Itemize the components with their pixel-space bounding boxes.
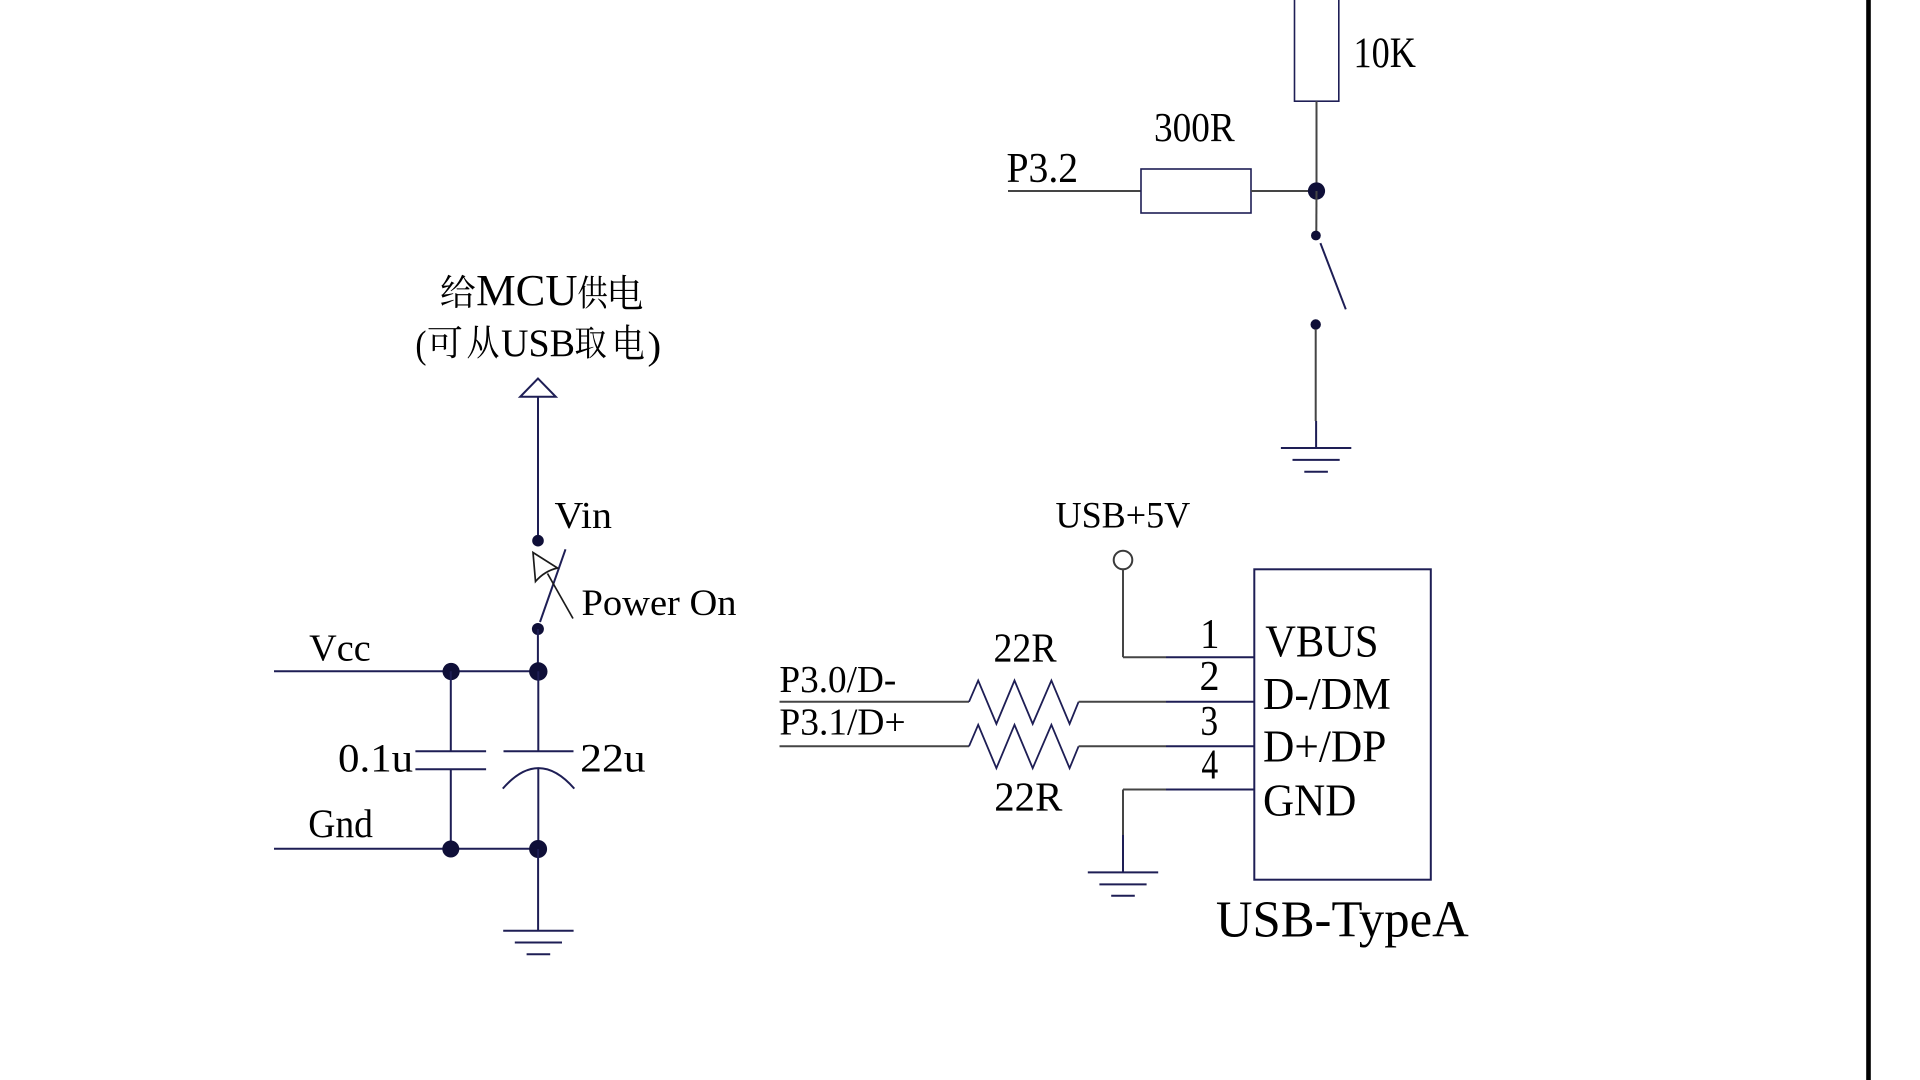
svg-text:2: 2	[1200, 652, 1220, 699]
capacitor 22u top lead	[537, 671, 539, 751]
svg-text:D-/DM: D-/DM	[1263, 669, 1391, 719]
capacitor 0.1u top lead	[450, 671, 452, 751]
svg-text:22R: 22R	[994, 774, 1063, 819]
capacitor 22u top plate	[504, 750, 574, 752]
ground symbol (left section)	[503, 931, 573, 955]
svg-text:USB-TypeA: USB-TypeA	[1216, 891, 1469, 948]
switch S1 bottom terminal dot	[1311, 319, 1321, 329]
terminal circle USB+5V	[1114, 551, 1133, 570]
svg-text:10K: 10K	[1354, 29, 1417, 77]
node Vin terminal dot	[532, 535, 544, 547]
pin 4 stub of USB connector	[1166, 789, 1254, 791]
svg-text:Vin: Vin	[555, 495, 613, 537]
wire 22R (D-) to pin 2	[1079, 701, 1166, 703]
svg-text:Vcc: Vcc	[309, 628, 371, 670]
wire 22R (D+) to pin 3	[1079, 745, 1166, 747]
wire Gnd junction to ground symbol	[537, 849, 539, 931]
net label wire P3.2	[1008, 190, 1141, 192]
hanzi GEI	[441, 275, 475, 308]
junction Gnd / 22u	[529, 840, 547, 858]
hanzi DIAN (line2)	[616, 324, 644, 359]
svg-text:300R: 300R	[1154, 105, 1235, 150]
svg-text:4: 4	[1201, 742, 1218, 788]
switch S1 blade	[1320, 243, 1345, 309]
resistor 300R body	[1141, 169, 1251, 213]
hanzi DIAN (line1)	[611, 275, 642, 310]
pin 2 stub of USB connector	[1166, 701, 1254, 703]
wire net Vcc	[274, 670, 538, 672]
svg-text:1: 1	[1200, 611, 1219, 658]
wire 300R to junction	[1251, 190, 1317, 192]
wire net D- (P3.0)	[780, 701, 970, 703]
wire net D+ (P3.1)	[780, 745, 970, 747]
svg-text:P3.0/D-: P3.0/D-	[779, 658, 896, 700]
junction Gnd / 0.1u	[442, 841, 459, 858]
svg-text:USB+5V: USB+5V	[1056, 494, 1191, 535]
svg-text:): )	[648, 323, 662, 367]
svg-text:P3.2: P3.2	[1007, 145, 1079, 191]
svg-text:Gnd: Gnd	[308, 802, 373, 846]
wire junction to switch top terminal	[1315, 191, 1317, 233]
svg-text:GND: GND	[1263, 775, 1356, 825]
hanzi KE	[428, 326, 461, 358]
svg-text:D+/DP: D+/DP	[1263, 722, 1386, 772]
svg-text:(: (	[415, 323, 426, 366]
pin 1 stub of USB connector	[1166, 656, 1254, 658]
switch S1 top terminal dot	[1311, 231, 1321, 241]
wire 10K bottom to junction	[1316, 101, 1318, 191]
capacitor 0.1u plates	[415, 750, 486, 752]
hanzi CONG	[468, 325, 499, 358]
capacitor 22u bottom lead	[537, 769, 539, 849]
wire net Gnd	[274, 848, 538, 850]
hanzi QU	[576, 326, 606, 358]
svg-text:VBUS: VBUS	[1265, 617, 1378, 666]
sheet border line	[1866, 0, 1871, 1080]
resistor 22R (D+) zigzag body	[969, 725, 1079, 768]
svg-text:USB: USB	[501, 323, 575, 366]
svg-text:MCU: MCU	[476, 265, 577, 315]
wire pin 4 to ground	[1123, 789, 1166, 791]
capacitor 0.1u bottom lead	[450, 769, 452, 848]
wire switch to ground	[1315, 329, 1317, 421]
ground symbol (USB shield)	[1088, 872, 1158, 895]
switch Power On blade	[540, 549, 566, 622]
ground symbol (pull-up switch)	[1281, 448, 1351, 472]
wire USB+5V to pin 1	[1123, 656, 1166, 658]
switch Power On bottom terminal dot	[532, 623, 544, 635]
capacitor 22u curved bottom plate	[503, 768, 575, 789]
resistor 22R (D-) zigzag body	[969, 681, 1079, 724]
wire switch to Vcc junction	[537, 629, 539, 671]
junction Vcc / 0.1u	[443, 663, 460, 680]
wire down to USB ground	[1122, 790, 1124, 836]
wire power flag to Vin terminal	[537, 397, 539, 535]
resistor 10K body	[1295, 0, 1339, 101]
power flag (VCC arrow)	[520, 379, 556, 398]
svg-text:Power On: Power On	[582, 582, 737, 623]
wire USB+5V down	[1122, 569, 1124, 657]
connector USB-TypeA body	[1254, 569, 1431, 879]
svg-text:P3.1/D+: P3.1/D+	[779, 701, 905, 743]
pin 3 stub of USB connector	[1166, 745, 1254, 747]
svg-text:22R: 22R	[994, 625, 1058, 671]
svg-text:0.1u: 0.1u	[338, 736, 413, 780]
switch Power On actuator arrow	[533, 553, 573, 619]
hanzi GONG	[578, 275, 607, 308]
svg-text:22u: 22u	[580, 737, 646, 781]
junction node at 300R/10K/switch	[1308, 182, 1325, 199]
svg-text:3: 3	[1200, 698, 1218, 744]
junction Vcc / 22u	[529, 662, 547, 680]
